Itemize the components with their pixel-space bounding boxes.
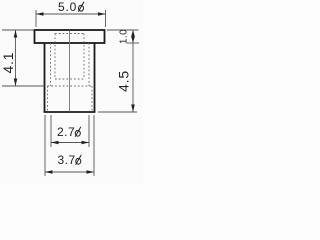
dim 4.1 extension line top — [2, 29, 34, 31]
dim 2.7φ extension line right — [88, 115, 90, 147]
dim 2.7φ dimension line — [51, 142, 89, 144]
dim 5.0φ extension line right — [105, 10, 107, 27]
hidden step at depth 4.1 — [48, 85, 93, 87]
dim 4.1 arrow bottom — [14, 79, 18, 87]
hidden bore 2.7φ left — [50, 43, 52, 86]
svg-text:4.1: 4.1 — [1, 52, 16, 74]
dim 1.0 / 4.5 dimension line — [132, 30, 134, 112]
dim 1.0 extension line bottom right — [127, 42, 139, 44]
dim 3.7φ arrow left — [45, 170, 53, 174]
centerline — [69, 31, 71, 112]
body left edge — [44, 43, 46, 112]
dim 3.7φ extension line left — [44, 115, 46, 176]
hidden bore 2.0φ top horizontal — [55, 33, 84, 35]
svg-text:4.5: 4.5 — [116, 70, 132, 92]
hidden lower bore left — [47, 86, 49, 112]
dim 3.7φ dimension line — [45, 171, 94, 173]
hidden lower bore right — [91, 86, 93, 112]
svg-text:2.7: 2.7 — [57, 125, 75, 139]
hidden bore 2.0φ right — [83, 34, 85, 80]
dim 2.7φ arrow right — [82, 141, 90, 145]
hidden bore 2.0φ bottom — [55, 78, 84, 80]
dim 4.5 extension line bottom right — [98, 111, 137, 113]
dim 5.0φ arrow right — [98, 12, 106, 16]
dim 2.7φ extension line left — [50, 115, 52, 147]
dim 4.1 arrow top — [14, 30, 18, 38]
dim 2.7φ arrow left — [51, 141, 59, 145]
dim 4.1 extension line bottom — [2, 85, 44, 87]
body bottom edge — [44, 111, 96, 113]
dim 4.1 dimension line — [15, 30, 17, 86]
hidden bore 2.0φ left — [54, 34, 56, 80]
dim 4.5 arrow down — [131, 105, 135, 113]
dim 1.0 extension line top right — [107, 29, 139, 31]
svg-text:3.7: 3.7 — [58, 153, 76, 167]
dim 5.0φ arrow left — [36, 12, 44, 16]
dim 1.0 arrow down — [131, 37, 135, 44]
flange outline — [35, 30, 105, 43]
dim 5.0φ dimension line — [36, 13, 106, 15]
svg-text:1.0: 1.0 — [119, 29, 130, 44]
dim 3.7φ extension line right — [93, 115, 95, 176]
body right edge — [94, 43, 96, 112]
hidden bore 2.7φ right — [88, 43, 90, 86]
dim 1.0 arrow up — [131, 30, 135, 37]
dim 3.7φ arrow right — [87, 170, 95, 174]
svg-text:5.0: 5.0 — [58, 0, 77, 14]
dim 5.0φ extension line left — [35, 10, 37, 27]
